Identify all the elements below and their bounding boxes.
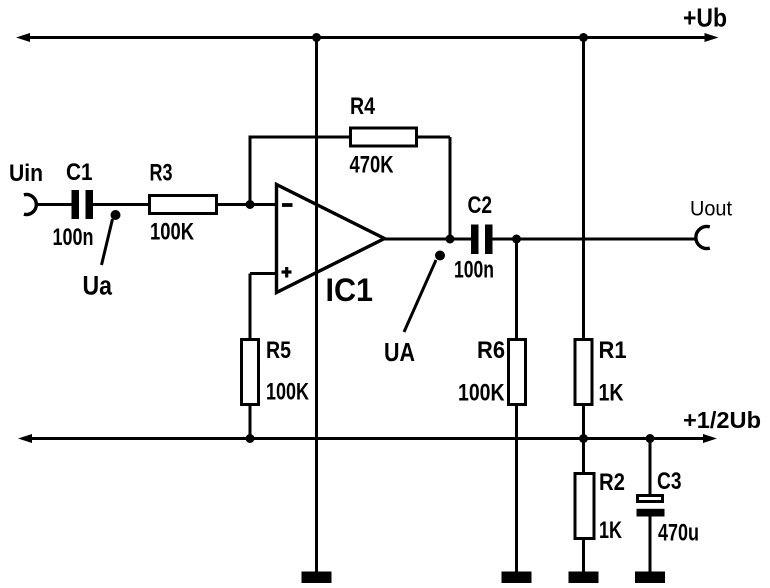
node junction after C2 (512, 235, 521, 244)
svg-text:UA: UA (384, 337, 415, 367)
wire +Ub rail down to R1 (582, 38, 585, 339)
svg-text:R5: R5 (266, 337, 291, 364)
node junction on +Ub rail at IC1 supply line (312, 33, 321, 42)
wire non-inverting input horizontal (250, 272, 277, 275)
wire feedback vertical down to output (449, 137, 452, 239)
svg-text:C2: C2 (468, 192, 493, 219)
leader line to Ua label (102, 219, 113, 265)
resistor R3 (150, 196, 217, 214)
node junction at inverting input (246, 200, 255, 209)
svg-text:C1: C1 (66, 159, 93, 186)
ground (IC1 supply line) (302, 572, 332, 584)
resistor R1 (575, 340, 592, 405)
+Ub rail left arrowhead (16, 33, 30, 42)
node junction C3 on rail (646, 434, 655, 443)
+1/2Ub rail right arrowhead (703, 434, 717, 443)
wire IC1 supply vertical line (315, 38, 318, 572)
svg-text:R6: R6 (477, 337, 505, 364)
leader line to UA label (404, 260, 436, 332)
node junction on +Ub rail at R1 (579, 33, 588, 42)
resistor R4 (351, 128, 417, 146)
svg-text:R4: R4 (350, 93, 376, 120)
wire C3 to ground (649, 516, 652, 572)
capacitor C2 (471, 225, 493, 255)
wire R4 to output node (417, 136, 450, 139)
svg-text:470u: 470u (658, 520, 699, 547)
svg-text:1K: 1K (599, 517, 622, 544)
svg-text:470K: 470K (350, 152, 395, 179)
svg-text:R1: R1 (599, 337, 627, 364)
wire junction up to feedback (249, 137, 252, 205)
ground (C3) (635, 572, 665, 584)
wire R6 to ground (515, 404, 518, 572)
wire R5 to +1/2Ub rail (249, 404, 252, 439)
op-amp non-inverting input mark + (282, 267, 292, 278)
wire op-amp output to C2 (385, 238, 472, 241)
svg-text:R2: R2 (599, 469, 625, 496)
svg-text:Ua: Ua (83, 271, 113, 301)
capacitor C1 (72, 190, 94, 219)
svg-text:1K: 1K (599, 380, 625, 407)
resistor R6 (509, 340, 526, 405)
wire R3 to inverting input (218, 203, 277, 206)
svg-text:100K: 100K (150, 219, 195, 246)
capacitor C3 (polarized) (637, 496, 665, 517)
svg-text:100K: 100K (458, 380, 505, 407)
wire R1 to +1/2Ub rail (582, 404, 585, 439)
node UA pointer dot (435, 251, 445, 261)
svg-text:R3: R3 (150, 160, 173, 187)
wire +1/2Ub rail (24, 437, 711, 440)
op-amp IC1 (277, 185, 385, 293)
svg-text:Uout: Uout (690, 197, 732, 221)
wire +Ub rail (22, 36, 712, 39)
wire rail down to R2 (582, 439, 585, 473)
svg-text:100K: 100K (266, 379, 310, 406)
node junction R5 on rail (246, 434, 255, 443)
wire C1 to R3 (93, 203, 148, 206)
wire rail down to C3 (649, 439, 652, 495)
wire down to R6 (515, 239, 518, 338)
svg-text:100n: 100n (454, 257, 494, 284)
+Ub rail right arrowhead (705, 33, 719, 42)
+1/2Ub rail left arrowhead (18, 434, 32, 443)
node junction output/feedback (446, 235, 455, 244)
ground (R6) (502, 572, 532, 584)
wire input terminal to C1 (37, 203, 72, 206)
wire feedback horizontal to R4 (249, 136, 350, 139)
ground (R2) (569, 572, 599, 584)
wire down to R5 (249, 274, 252, 339)
node junction R1/R2 on rail (579, 434, 588, 443)
output terminal Uout (696, 227, 710, 249)
svg-text:C3: C3 (657, 468, 682, 495)
svg-text:Uin: Uin (9, 160, 43, 187)
resistor R5 (242, 340, 259, 405)
op-amp inverting input mark - (282, 203, 293, 207)
svg-text:+Ub: +Ub (683, 3, 727, 33)
input terminal Uin (24, 195, 36, 215)
svg-text:IC1: IC1 (326, 272, 374, 308)
svg-text:+1/2Ub: +1/2Ub (683, 407, 761, 433)
resistor R2 (575, 474, 594, 539)
wire C2 to output terminal (493, 238, 698, 241)
node Ua pointer dot (111, 210, 121, 220)
wire R2 to ground (582, 538, 585, 572)
svg-text:100n: 100n (53, 224, 94, 251)
